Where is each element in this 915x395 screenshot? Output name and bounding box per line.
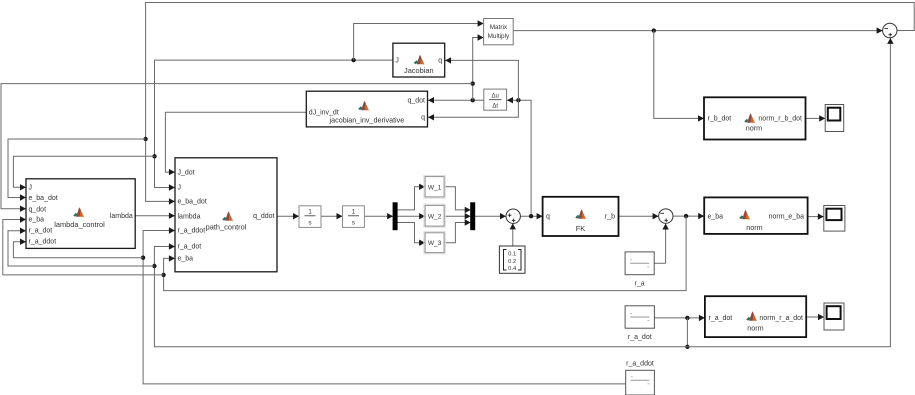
wire e_ba_dot branch to lambda_control e_ba_dot input	[8, 139, 146, 198]
error sum after FK	[659, 209, 673, 223]
top-right sum r_b_dot minus r_a_dot	[883, 23, 897, 37]
constant offset vector [0.1;0.2;0.4]	[499, 246, 525, 273]
svg-text:r_a_dot: r_a_dot	[29, 228, 53, 235]
junction q_dot to Matrix Multiply branch	[471, 98, 475, 102]
wire e_ba from error sum to norm_e_ba input	[673, 215, 704, 217]
wire mux output to offset sum	[475, 215, 506, 217]
block Jacobian (MATLAB function, mirrored)	[393, 43, 445, 77]
junction q branch	[516, 98, 520, 102]
junction r_b_dot branch	[652, 28, 656, 32]
svg-text:q: q	[546, 214, 550, 221]
wire norm_r_b_dot output to scope	[806, 117, 825, 119]
svg-text:Jacobian: Jacobian	[404, 66, 434, 75]
svg-text:r_a_ddot: r_a_ddot	[626, 361, 654, 368]
block lambda_control (MATLAB function)	[26, 179, 135, 249]
svg-text:W_1: W_1	[428, 184, 442, 191]
svg-text:norm_e_ba: norm_e_ba	[769, 213, 805, 220]
svg-text:norm_r_a_dot: norm_r_a_dot	[759, 315, 803, 322]
wire r_b from FK to error sum	[619, 215, 659, 217]
svg-text:J: J	[29, 185, 33, 192]
mux bar	[471, 203, 475, 230]
svg-text:e_ba_dot: e_ba_dot	[178, 199, 207, 206]
wire r_a_ddot from source left then up to path_control r_a_ddot input	[143, 231, 626, 384]
scope norm_e_ba	[824, 206, 845, 232]
wire demux out 1 to W_1	[397, 187, 425, 210]
block W_1	[424, 175, 445, 198]
wire W_1 to mux in 1	[444, 187, 470, 210]
svg-text:0.1: 0.1	[508, 252, 516, 258]
wire r_b_dot from Matrix Multiply output to top-right sum	[513, 30, 882, 32]
block integrator 2 (1/s)	[343, 206, 365, 228]
junction J branch to Matrix Multiply	[351, 58, 355, 62]
wire W_2 to mux in 2	[444, 215, 470, 217]
svg-text:r_b: r_b	[605, 214, 615, 221]
svg-text:q: q	[421, 115, 425, 122]
wire dJ_inv_dt from jacobian_inv_derivative output to path_control J_dot input	[165, 112, 306, 172]
svg-text:q: q	[438, 57, 442, 64]
svg-text:e_ba_dot: e_ba_dot	[29, 195, 58, 202]
block FK (MATLAB function)	[543, 197, 619, 236]
junction r_a_dot branch to lambda_control	[152, 264, 156, 268]
svg-text:r_a_dot: r_a_dot	[709, 315, 733, 322]
block W_2	[424, 204, 445, 227]
svg-text:q_ddot: q_ddot	[253, 213, 274, 220]
svg-text:jacobian_inv_derivative: jacobian_inv_derivative	[329, 115, 405, 124]
scope norm_r_a_dot	[824, 303, 844, 330]
wire e_ba branch to lambda_control e_ba input	[3, 220, 164, 275]
svg-text:J: J	[395, 57, 399, 64]
svg-text:Multiply: Multiply	[488, 33, 510, 40]
junction J branch to lambda_control	[152, 154, 156, 158]
wire q_dot branch up to Matrix Multiply input 2	[473, 38, 484, 101]
wire e_ba feedback down and left then up to path_control e_ba input	[164, 216, 687, 291]
wire r_a_dot branch down to distribution line	[686, 318, 688, 347]
wire q feedback from FK input junction up to du/dt input	[507, 100, 531, 216]
scope norm_r_b_dot	[825, 105, 844, 132]
svg-text:lambda_control: lambda_control	[54, 220, 105, 229]
wire q branch up to Jacobian q input	[445, 60, 518, 100]
svg-text:norm: norm	[746, 223, 762, 232]
svg-text:J_dot: J_dot	[178, 169, 195, 176]
svg-text:Matrix: Matrix	[490, 24, 508, 31]
junction e_ba feedback	[684, 214, 688, 218]
svg-text:norm_r_b_dot: norm_r_b_dot	[758, 116, 802, 123]
junction q trunk	[529, 214, 533, 218]
svg-text:q_dot: q_dot	[29, 206, 47, 213]
svg-text:Δt: Δt	[492, 104, 498, 110]
wire integrator 1 to integrator 2	[321, 215, 342, 217]
junction r_a_dot branch	[685, 316, 689, 320]
wire demux out 2 to W_2	[397, 215, 425, 217]
svg-text:r_b_dot: r_b_dot	[708, 116, 732, 123]
svg-text:r_a_ddot: r_a_ddot	[178, 228, 206, 235]
svg-text:W_2: W_2	[428, 213, 442, 220]
source block r_a_dot	[625, 306, 654, 328]
svg-text:0.4: 0.4	[508, 266, 517, 272]
wire constant offset up into sum	[512, 224, 514, 246]
svg-text:e_ba: e_ba	[708, 213, 724, 220]
svg-text:r_a_dot: r_a_dot	[178, 244, 202, 251]
wire r_a_dot distribution right then up to top-right sum plus input	[687, 38, 890, 347]
svg-text:r_a_ddot: r_a_ddot	[29, 238, 57, 245]
block integrator 1 (1/s)	[299, 206, 321, 228]
svg-text:e_ba: e_ba	[29, 217, 45, 224]
wire J branch up to Matrix Multiply input 1	[354, 24, 484, 61]
wire r_a_dot branch to lambda_control r_a_dot input	[8, 231, 154, 266]
svg-text:q_dot: q_dot	[407, 98, 425, 105]
block path_control (MATLAB function)	[175, 158, 277, 272]
wire q branch down to jacobian_inv_derivative q input	[428, 100, 518, 117]
svg-text:path_control: path_control	[206, 223, 247, 232]
svg-text:norm: norm	[747, 324, 763, 333]
wire q_dot from du/dt output to jacobian_inv_derivative q_dot input	[428, 99, 484, 101]
wire demux out 3 to W_3	[397, 223, 425, 243]
wire e_ba_dot from top-right sum around top to path_control e_ba_dot input	[146, 3, 915, 202]
svg-text:dJ_inv_dt: dJ_inv_dt	[309, 109, 339, 116]
wire norm_r_a_dot output to scope	[806, 316, 823, 318]
junction e_ba branch to lambda_control	[161, 273, 165, 277]
wire W_3 to mux in 3	[444, 223, 470, 243]
wire J from Jacobian output left then down to path_control J input	[155, 60, 393, 187]
wire r_a_ddot branch to lambda_control r_a_ddot input	[13, 242, 143, 258]
junction r_a_ddot branch to lambda_control	[141, 256, 145, 260]
svg-text:1: 1	[308, 209, 312, 216]
wire q_ddot from path_control to integrator 1	[277, 215, 299, 217]
junction q_dot to lambda_control branch	[471, 81, 475, 85]
wire r_a_dot source to norm_r_a_dot input	[654, 317, 704, 319]
wire r_a source up into error sum	[654, 224, 665, 264]
source block r_a_ddot (mirrored, at bottom edge)	[626, 370, 655, 395]
wire lambda from lambda_control output to path_control lambda input	[135, 215, 174, 217]
block jacobian_inv_derivative (MATLAB function, mirrored)	[306, 91, 427, 127]
svg-text:0.2: 0.2	[508, 259, 516, 265]
block Matrix Multiply	[484, 19, 514, 45]
svg-text:lambda: lambda	[110, 213, 133, 220]
svg-text:W_3: W_3	[428, 240, 442, 247]
svg-text:lambda: lambda	[178, 213, 201, 220]
wire q_dot branch far left down to lambda_control q_dot input	[1, 84, 473, 209]
wire J branch to lambda_control J input	[13, 156, 154, 187]
block du/dt derivative (mirrored)	[484, 89, 507, 110]
svg-text:r_a: r_a	[635, 281, 645, 288]
demux bar	[393, 203, 397, 230]
junction r_a_dot distribution	[685, 345, 689, 349]
block W_3	[424, 232, 445, 254]
svg-text:norm: norm	[746, 123, 762, 132]
svg-text:Δu: Δu	[492, 94, 499, 100]
source block r_a	[625, 252, 654, 275]
block norm_r_a_dot (MATLAB function norm)	[705, 296, 806, 337]
svg-text:r_a_dot: r_a_dot	[628, 334, 652, 341]
svg-text:J: J	[178, 185, 182, 192]
block norm_e_ba (MATLAB function norm)	[704, 197, 807, 234]
wire r_b_dot branch down to norm_r_b_dot input	[654, 31, 704, 119]
block norm_r_b_dot (MATLAB function norm)	[704, 97, 806, 139]
svg-text:1: 1	[352, 209, 356, 216]
wire offset sum to FK q input	[520, 215, 542, 217]
wire norm_e_ba output to scope	[808, 216, 824, 218]
wire r_a_dot distribution line left then up to path_control r_a_dot input	[154, 247, 687, 347]
junction e_ba_dot branch to lambda_control	[143, 137, 147, 141]
sum after mux (offset sum)	[506, 209, 520, 223]
svg-text:FK: FK	[576, 224, 586, 233]
wire integrator 2 to demux	[364, 215, 392, 217]
svg-text:e_ba: e_ba	[178, 256, 194, 263]
